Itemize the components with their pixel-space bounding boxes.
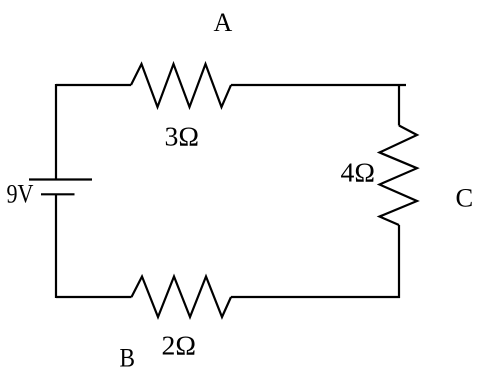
wire: resistor 2ohm to bottom-left corner — [56, 296, 132, 298]
resistor 2ohm zigzag — [132, 277, 232, 318]
wire: bottom-right corner to resistor 2ohm — [231, 296, 400, 298]
wire: top-left corner to resistor 3ohm — [56, 84, 131, 86]
svg-text:3Ω: 3Ω — [165, 122, 200, 152]
resistor 3ohm zigzag — [131, 64, 231, 107]
wire: resistor 3ohm to top-right corner — [231, 84, 406, 86]
wire: right vertical upper segment — [398, 84, 400, 126]
wire: left vertical upper segment (top to battery) — [55, 84, 57, 180]
svg-text:B: B — [120, 344, 136, 373]
svg-text:4Ω: 4Ω — [341, 158, 376, 188]
svg-text:C: C — [456, 183, 474, 213]
svg-text:9V: 9V — [7, 180, 34, 209]
battery 9V short plate (negative) — [41, 193, 75, 195]
wire: right vertical lower segment — [398, 225, 400, 298]
svg-text:2Ω: 2Ω — [162, 331, 197, 361]
wire: left vertical lower segment (battery to bottom) — [55, 194, 57, 298]
svg-text:A: A — [214, 8, 233, 37]
battery 9V long plate (positive) — [29, 178, 92, 180]
resistor 4ohm zigzag — [380, 126, 418, 226]
